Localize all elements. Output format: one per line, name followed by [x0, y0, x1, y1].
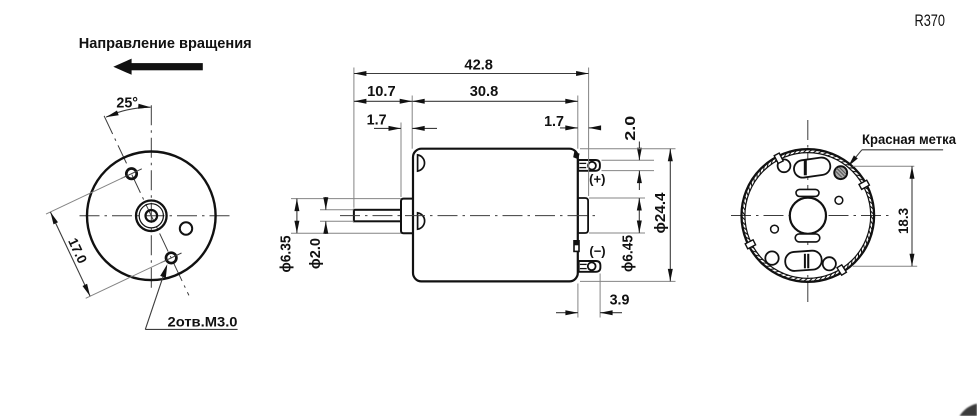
- callout red mark: leader line with arrow: [862, 149, 943, 151]
- middle view: vent hole middle (D-shape): [418, 213, 425, 229]
- right view: oval recess above center: [796, 189, 819, 196]
- middle view: motor body: [413, 149, 578, 282]
- middle view: bushing collar: [401, 199, 413, 234]
- dimension phi6.45: line and arrows: [638, 198, 640, 233]
- angle dimension 25deg: arc with arrows: [106, 107, 151, 117]
- dimension 18.3: line and arrows: [911, 166, 913, 266]
- svg-text:1.7: 1.7: [544, 114, 564, 130]
- middle view: terminal (-) tab: [579, 261, 601, 272]
- dimension 30.8: line and arrows: [412, 100, 578, 102]
- svg-text:18.3: 18.3: [896, 208, 911, 234]
- dimension 2.0: extension lines from terminal: [602, 159, 655, 161]
- left view: shaft circle: [146, 210, 158, 222]
- middle view: terminal (+) crimp marks: [579, 162, 586, 164]
- svg-text:25°: 25°: [116, 95, 138, 111]
- dimension 1.7 right (boss): arrows outside: [560, 127, 578, 129]
- right view: small hole left: [771, 225, 779, 233]
- left view: shaft hub outer circle: [136, 201, 167, 232]
- dimension phi6.35: line and arrows: [296, 199, 298, 234]
- svg-text:Направление вращения: Направление вращения: [79, 35, 252, 52]
- dimension 42.8: line and arrows: [354, 73, 589, 75]
- left view: mounting-hole axis line at 25 deg: [104, 116, 189, 296]
- extension line at body right edge (top): [577, 96, 579, 149]
- right view: top slot bar: [804, 161, 807, 176]
- right view: outer circle: [742, 149, 875, 282]
- left view: mounting hole bottom-right with cross marks: [166, 253, 176, 263]
- right view: screw hole bottom-right: [823, 257, 836, 270]
- right view: screw hole bottom-left: [765, 251, 778, 264]
- extension line at shaft tip: [353, 68, 355, 208]
- dimension phi24.4: line and arrows: [669, 149, 671, 282]
- dimension 3.9: line with outside arrows: [556, 312, 578, 314]
- extension line at bushing left edge: [400, 123, 402, 198]
- svg-text:10.7: 10.7: [367, 84, 396, 100]
- svg-text:ϕ2.0: ϕ2.0: [308, 238, 324, 269]
- extension lines for body diameter 24.4: [580, 148, 676, 150]
- svg-text:3.9: 3.9: [610, 292, 630, 308]
- svg-text:ϕ24.4: ϕ24.4: [653, 192, 669, 233]
- dimension 18.3: extension lines: [853, 165, 915, 167]
- middle view: vent hole top (D-shape): [418, 155, 425, 171]
- dimension phi2.0: vertical line with outside arrows: [325, 197, 327, 210]
- right view: bottom brush slot (stadium): [785, 250, 823, 271]
- extension line at boss tip: [588, 68, 590, 197]
- extension lines for bushing diameter 6.35: [291, 198, 401, 200]
- dimension 1.7 left (bushing): arrows outside: [374, 127, 401, 129]
- middle view: terminal (-) hole: [588, 262, 596, 270]
- dimension 2.0: vertical line with outside arrows: [638, 142, 640, 161]
- right view: center bearing hole: [790, 198, 826, 234]
- dimension 17.0: extension lines from holes: [46, 177, 124, 214]
- middle view: case crimp tab at top right corner: [573, 152, 579, 159]
- right view: vertical center line: [807, 120, 809, 302]
- svg-text:2.0: 2.0: [623, 116, 639, 141]
- extension line at body left edge (top): [411, 96, 413, 149]
- svg-text:30.8: 30.8: [470, 84, 499, 100]
- left view: plain hole right of hub: [180, 222, 192, 234]
- right view: small hole right: [835, 196, 843, 204]
- svg-text:1.7: 1.7: [367, 113, 387, 129]
- dimension 10.7: line and arrows: [354, 100, 412, 102]
- middle view: shaft: [354, 210, 405, 222]
- left view: horizontal center line: [80, 215, 231, 217]
- svg-text:ϕ6.35: ϕ6.35: [278, 235, 294, 272]
- svg-text:(+): (+): [589, 171, 605, 186]
- middle view: terminal (+) hole: [588, 162, 596, 170]
- right view: oval recess below center: [795, 234, 820, 242]
- right view: rim hatching ticks: [742, 150, 874, 282]
- extension lines for boss diameter 6.45: [589, 197, 645, 199]
- svg-text:ϕ6.45: ϕ6.45: [621, 235, 637, 272]
- right view: rim crimp tabs: [774, 153, 783, 163]
- dimension 3.9: extension lines: [577, 284, 579, 318]
- dimension 17.0: dimension line with arrows: [50, 212, 90, 296]
- left view: mounting hole top-left with cross marks: [126, 169, 136, 179]
- right view: horizontal center line: [731, 215, 891, 217]
- middle view: terminal (-) crimp marks: [580, 263, 587, 265]
- right view: red mark (hatched circle): [834, 166, 847, 179]
- right view: screw hole top-left: [778, 159, 791, 172]
- right view: inner rim circle: [745, 153, 871, 279]
- middle view: horizontal center line: [340, 215, 596, 217]
- middle view: rear bearing boss: [578, 198, 588, 233]
- decorative dark page corner bottom-right: [960, 404, 977, 416]
- right view: top brush slot (stadium): [793, 156, 832, 178]
- svg-text:(−): (−): [589, 244, 605, 259]
- middle view: terminal (+) tab: [578, 160, 600, 171]
- callout 2 holes M3.0: leader line with arrow: [145, 267, 166, 329]
- extension lines for shaft diameter 2.0: [320, 209, 354, 211]
- svg-text:42.8: 42.8: [464, 58, 493, 74]
- left view: motor face outer circle: [87, 152, 216, 281]
- svg-text:R370: R370: [915, 12, 946, 30]
- svg-text:2отв.М3.0: 2отв.М3.0: [168, 315, 238, 330]
- middle view: case clip above minus terminal: [574, 241, 579, 252]
- right view: bottom slot double bar: [804, 254, 806, 268]
- left view: vertical center line: [150, 105, 152, 291]
- rotation direction arrow (thick, pointing left): [113, 59, 131, 75]
- left view: shaft hub middle circle: [139, 204, 163, 228]
- svg-text:Красная метка: Красная метка: [862, 132, 956, 147]
